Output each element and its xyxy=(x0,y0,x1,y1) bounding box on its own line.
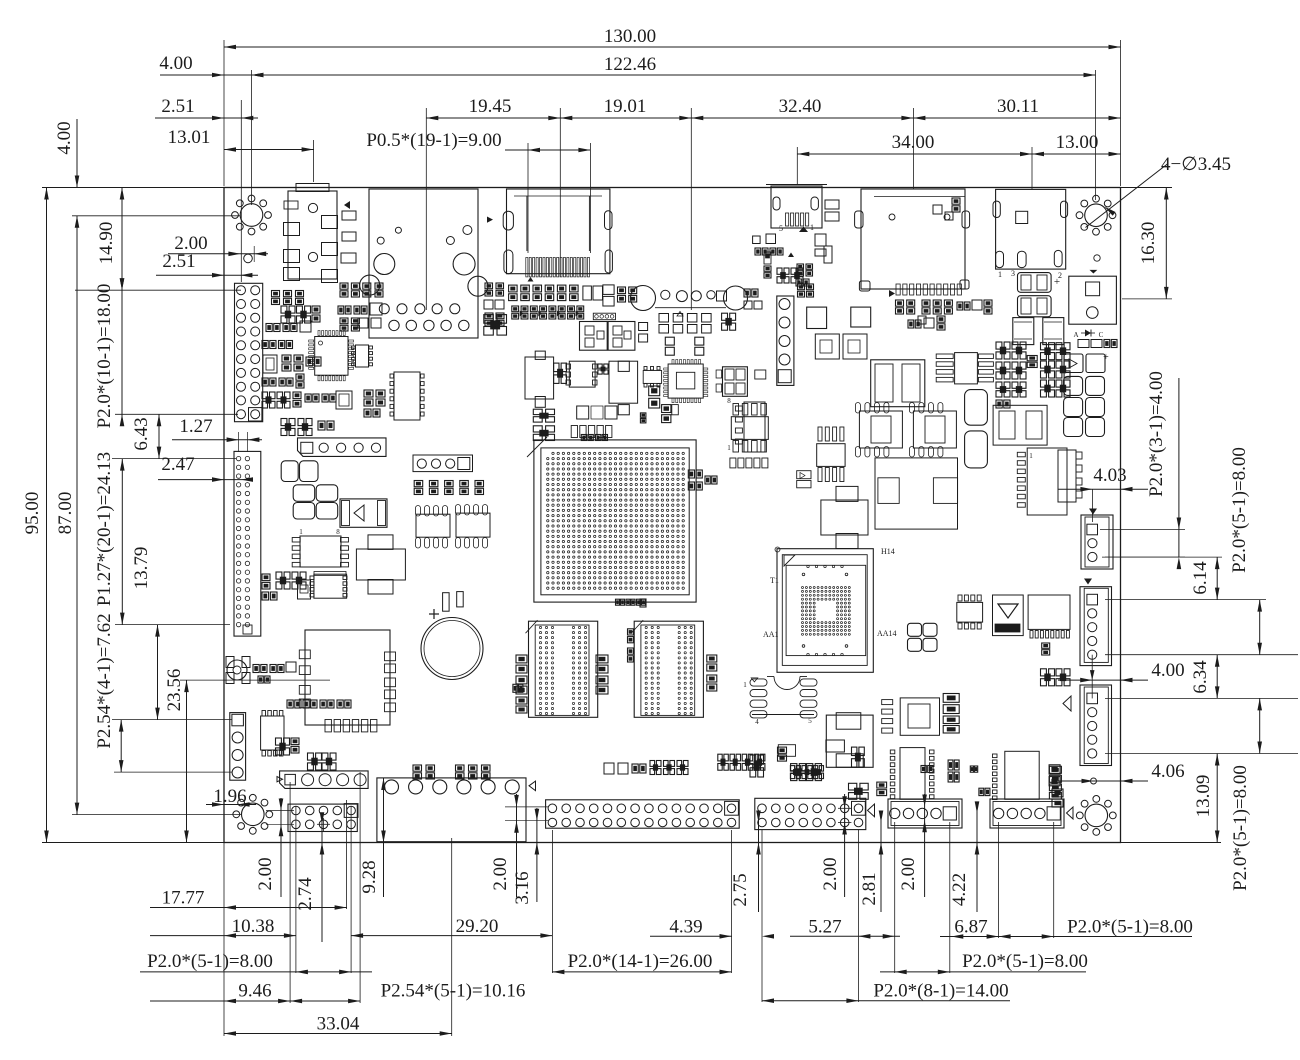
jumper group B2 xyxy=(512,306,584,319)
pin1 marker triangle xyxy=(1090,270,1098,274)
IC U33 SOIC8 footprint xyxy=(743,677,817,727)
IC U22 SOP8 xyxy=(855,403,902,458)
dual USB J2 mount holes xyxy=(360,226,488,297)
capacitor C102 xyxy=(1013,318,1034,345)
SMD pads right of J1 xyxy=(341,201,356,263)
svg-text:1: 1 xyxy=(299,528,303,536)
diode bridge D2 xyxy=(340,499,387,527)
dimension P0.5*(19-1)=9.00 xyxy=(366,130,590,253)
svg-text:1: 1 xyxy=(743,681,747,689)
extension line ext 731.5 xyxy=(731,830,733,973)
extension line ext 1053.7 xyxy=(1053,822,1055,938)
pads right of DDR JP14 xyxy=(707,655,717,691)
board bottom edge extension right xyxy=(1121,842,1222,844)
dimension 2.47 xyxy=(158,454,253,482)
dimension P2.0*(5-1)=8.00 bottom-left xyxy=(140,951,372,974)
svg-text:2.51: 2.51 xyxy=(161,96,194,117)
svg-text:13.00: 13.00 xyxy=(1056,132,1099,153)
cluster E5 xyxy=(282,355,321,371)
dimension 6.43 xyxy=(131,414,161,458)
svg-text:P2.0*(8-1)=14.00: P2.0*(8-1)=14.00 xyxy=(873,981,1008,1002)
extension line header row1 xyxy=(75,289,241,291)
jumper block C3 xyxy=(730,458,768,468)
svg-text:P2.54*(5-1)=10.16: P2.54*(5-1)=10.16 xyxy=(381,981,526,1002)
SSOP U7 xyxy=(352,345,373,367)
header J22 1x4 xyxy=(413,455,473,472)
SD card J5 pins xyxy=(889,284,961,297)
svg-text:4.00: 4.00 xyxy=(54,121,75,154)
svg-text:P2.54*(4-1)=7.62: P2.54*(4-1)=7.62 xyxy=(94,613,115,748)
board top edge extension left xyxy=(42,187,224,189)
svg-text:130.00: 130.00 xyxy=(604,26,656,47)
svg-text:29.20: 29.20 xyxy=(456,916,499,937)
via below J10 xyxy=(1091,778,1097,784)
svg-text:A: A xyxy=(1073,331,1078,339)
diode D1 A-C symbol xyxy=(1073,330,1103,340)
extension lines wafer J pins xyxy=(1100,530,1185,558)
IC U29 SOIC8 xyxy=(727,397,768,452)
regulator U15 xyxy=(525,351,554,407)
svg-text:13.01: 13.01 xyxy=(168,127,211,148)
power connector J6 pin labels xyxy=(998,269,1062,280)
SD card slot J5 outline xyxy=(861,189,965,289)
pin1 marker J9 wafer xyxy=(1084,579,1092,585)
cluster F7 xyxy=(908,316,945,330)
dimension P2.0*(5-1)=8.00 bottom-right2 xyxy=(880,951,1088,974)
micro-USB J4 pins xyxy=(786,213,809,226)
svg-text:1: 1 xyxy=(1029,452,1033,460)
cluster F6 below SD xyxy=(896,300,993,314)
mounting hole H3 bottom-left 3.45mm xyxy=(233,794,273,834)
dual USB J2 pins row1 xyxy=(379,304,460,314)
inductor L2 xyxy=(826,713,873,768)
dimension 6.14 xyxy=(1105,557,1222,600)
cluster E4 xyxy=(262,341,293,349)
crystal Y1 xyxy=(336,391,352,409)
svg-text:P2.0*(5-1)=8.00: P2.0*(5-1)=8.00 xyxy=(1229,447,1250,573)
SSOP U28 xyxy=(817,427,845,482)
extension line 599.6 xyxy=(1105,599,1266,601)
dimension 6.87 xyxy=(940,917,1000,939)
header J12 pins xyxy=(236,456,252,634)
extension line ext 858.4 xyxy=(857,830,859,1002)
pads F9 xyxy=(918,316,926,324)
SSOP U14 xyxy=(261,711,284,757)
svg-text:P0.5*(19-1)=9.00: P0.5*(19-1)=9.00 xyxy=(366,130,501,151)
svg-text:6.14: 6.14 xyxy=(1190,561,1211,595)
cluster G1 xyxy=(618,287,637,302)
dimension P2.0*(5-1)=8.00 bottom-right1 xyxy=(999,917,1193,939)
dual USB J2 pins row2 xyxy=(389,320,469,330)
capacitor C107 pair xyxy=(1064,418,1105,437)
mosfet pair Q2 xyxy=(716,367,747,397)
SOT23 Q3 xyxy=(755,370,766,379)
dimension 13.00 xyxy=(1032,132,1121,156)
dimension 13.01 xyxy=(168,127,314,182)
svg-text:19.01: 19.01 xyxy=(604,96,647,117)
header J17 pins xyxy=(548,801,738,826)
cluster E9 xyxy=(340,283,383,297)
pads below BGA JP13 xyxy=(616,599,647,607)
dimension P1.27*(20-1)=24.13 xyxy=(94,452,125,625)
mounting hole H1 top-left 3.45mm xyxy=(232,195,272,235)
marker right of J2 xyxy=(487,217,493,223)
speaker footprint SP1 xyxy=(1069,276,1117,324)
jumper cluster C8 xyxy=(1041,643,1071,686)
jumper block C9 xyxy=(791,764,822,781)
jumper row JP1 xyxy=(414,481,483,495)
svg-text:1.27: 1.27 xyxy=(179,416,212,437)
dimension 13.79 xyxy=(131,547,160,720)
jumper cluster A3 xyxy=(262,572,306,600)
header J12 2x20 1.27mm outline xyxy=(234,451,261,636)
wifi module U5 xyxy=(299,630,395,732)
svg-text:P2.0*(5-1)=8.00: P2.0*(5-1)=8.00 xyxy=(1230,765,1251,891)
IC U23 SOP8 xyxy=(909,403,956,458)
svg-text:P2.0*(10-1)=18.00: P2.0*(10-1)=18.00 xyxy=(94,284,115,429)
dimension 4.00 top-left xyxy=(159,53,263,77)
SSOP U35 xyxy=(890,748,934,800)
svg-text:3: 3 xyxy=(1011,269,1015,278)
block C10 xyxy=(750,755,764,777)
svg-text:9.28: 9.28 xyxy=(359,860,380,893)
QFN U18 xyxy=(664,360,708,403)
extension line 1.27 header row20 xyxy=(115,624,230,626)
IC U30 SOP8 horizontal xyxy=(936,353,993,384)
micro-USB J4 slots xyxy=(773,197,818,210)
svg-text:P2.0*(3-1)=4.00: P2.0*(3-1)=4.00 xyxy=(1146,371,1167,497)
svg-text:+: + xyxy=(1103,352,1109,363)
dimension P2.0*(8-1)=14.00 xyxy=(762,981,1010,1004)
block B9 xyxy=(554,363,609,383)
regulator U27 xyxy=(821,486,868,548)
cluster E10 xyxy=(338,303,382,315)
svg-text:122.46: 122.46 xyxy=(604,54,656,75)
jumper row JP5 xyxy=(778,747,824,779)
svg-text:2.51: 2.51 xyxy=(162,251,195,272)
SOT23 Q1 xyxy=(298,580,311,599)
dimension 6.34 xyxy=(1190,655,1220,699)
IC U32 SOIC16 xyxy=(1028,595,1070,638)
svg-text:2.00: 2.00 xyxy=(490,857,511,890)
dimension 2.51 left second xyxy=(156,251,258,278)
extension line ext 762 xyxy=(761,830,763,1002)
dimension 30.11 xyxy=(913,96,1120,120)
SSOP U12 xyxy=(390,372,424,420)
dimension P2.0*(10-1)=18.00 xyxy=(94,278,124,428)
jumper cluster C5 xyxy=(1027,356,1037,368)
jumper cluster C11 xyxy=(1049,765,1063,807)
header J18 2x8 2.0mm outline xyxy=(755,798,866,829)
svg-text:4.00: 4.00 xyxy=(1151,660,1184,681)
dual USB connector J2 shell xyxy=(369,189,478,338)
header J11 2x10 2.0mm outline xyxy=(235,283,263,421)
dimension 4.06 xyxy=(1058,761,1185,783)
dimension 130.00 extension lines xyxy=(224,40,1121,186)
svg-text:87.00: 87.00 xyxy=(55,492,76,535)
power connector J6 pads xyxy=(993,201,1068,268)
IC U31 SOP8 xyxy=(957,595,983,629)
pads B8 xyxy=(639,323,648,343)
SSOP U21 xyxy=(735,402,765,452)
triangle F5 xyxy=(788,253,794,258)
pads B14 xyxy=(640,405,678,423)
regulator U9 xyxy=(356,535,405,594)
connector row B4 holes xyxy=(631,286,748,311)
HDMI J3 pin1 triangle xyxy=(528,277,534,282)
jumper cluster A2 xyxy=(281,419,334,436)
block C14 xyxy=(849,783,869,799)
svg-text:4.03: 4.03 xyxy=(1093,465,1126,486)
pads JP8 xyxy=(604,761,688,775)
block B10 xyxy=(649,386,660,408)
extension line ext 290.1 xyxy=(289,782,291,1003)
dimension P2.0*(5-1)=8.00 right lower xyxy=(1230,698,1262,890)
diode module D5 xyxy=(993,595,1024,636)
block JP6 xyxy=(852,747,865,767)
svg-text:32.40: 32.40 xyxy=(779,96,822,117)
dimension 4.22 xyxy=(949,801,979,912)
header J21 1x5 angled xyxy=(298,438,387,457)
header J24 1x5 vertical xyxy=(777,296,794,385)
board bottom edge extension left xyxy=(42,842,224,844)
extension line 698.4 xyxy=(1105,697,1298,699)
mounting hole H2 top-right 3.45mm xyxy=(1076,195,1116,235)
tact switch SW1 xyxy=(226,657,250,684)
svg-text:4: 4 xyxy=(755,718,759,726)
svg-text:C: C xyxy=(1099,331,1104,339)
dimension 4.00 right xyxy=(1058,660,1185,682)
svg-text:4.06: 4.06 xyxy=(1151,761,1184,782)
tantalum capacitor C101 xyxy=(1018,276,1061,317)
dimension 13.09 xyxy=(1193,754,1220,843)
svg-text:P2.0*(5-1)=8.00: P2.0*(5-1)=8.00 xyxy=(962,951,1088,972)
dimension 34.00 xyxy=(797,132,1032,189)
power block D4 xyxy=(815,334,867,359)
IC U20 SOIC8 right edge xyxy=(1058,450,1082,502)
dimension 95.00 xyxy=(22,188,49,843)
jumper cluster A1 xyxy=(364,390,385,417)
dimension 4.00 left vertical xyxy=(54,119,79,228)
pin1 marker J17 xyxy=(529,781,536,791)
pin1 marker J20 xyxy=(1067,807,1074,819)
IC U16 SOIC8 xyxy=(566,361,597,387)
svg-text:1: 1 xyxy=(727,444,731,452)
SD card J5 tabs xyxy=(855,211,970,291)
jumper C1c xyxy=(796,264,813,286)
mounting hole H4 bottom-right 3.45mm xyxy=(1076,796,1116,836)
extension line ext 360.1 xyxy=(359,772,361,1003)
svg-text:6.34: 6.34 xyxy=(1190,660,1211,694)
capacitor C1 pair xyxy=(281,461,318,482)
pads C15 xyxy=(877,782,887,796)
svg-text:2.00: 2.00 xyxy=(820,857,841,890)
audio jack J1 pads xyxy=(284,201,338,283)
svg-text:P1.27*(20-1)=24.13: P1.27*(20-1)=24.13 xyxy=(94,452,115,606)
dimension 19.01 xyxy=(560,96,691,310)
EEPROM U13 xyxy=(310,572,347,599)
audio jack J1 body xyxy=(288,184,337,280)
DDR chip U3 xyxy=(526,620,598,717)
transformer T1a xyxy=(580,322,608,351)
svg-text:10.38: 10.38 xyxy=(232,916,275,937)
dimension 2.51 top xyxy=(155,96,258,282)
jumper row JP4 xyxy=(718,754,765,770)
header J15 pins xyxy=(292,804,358,831)
dimension 23.56 xyxy=(164,669,189,843)
pads C13 xyxy=(948,760,959,782)
pads C2c xyxy=(815,200,839,263)
svg-text:13.79: 13.79 xyxy=(131,547,152,590)
PCB board outline xyxy=(224,188,1121,843)
svg-text:1: 1 xyxy=(810,223,814,232)
pin1 marker J14 xyxy=(277,777,283,782)
header J17 2x14 2.0mm outline xyxy=(546,800,740,828)
svg-text:H14: H14 xyxy=(881,547,895,556)
dimension 14.90 xyxy=(96,188,124,291)
dimension P2.54*(4-1)=7.62 xyxy=(94,613,124,772)
jumper row JP3 xyxy=(413,765,490,779)
wafer connector J7 3-pin xyxy=(1081,515,1113,569)
capacitor C105 pair xyxy=(1064,376,1105,395)
dimension 2.74 xyxy=(295,812,324,942)
regulator U17 xyxy=(609,361,638,415)
svg-text:4.22: 4.22 xyxy=(949,873,970,906)
header J18 pins xyxy=(758,801,866,829)
extension line ext board left bottom xyxy=(223,843,225,1037)
BGA U2 eMMC outline xyxy=(775,547,873,672)
jumper cluster C4 xyxy=(996,342,1026,397)
extension line 772.1 xyxy=(114,771,232,773)
pads F8 xyxy=(933,198,960,220)
header J23 1x4 small xyxy=(593,313,615,320)
via near H1 xyxy=(244,254,253,263)
pads C0 xyxy=(744,289,762,309)
extension line ext 894.7 xyxy=(894,822,896,973)
svg-text:13.09: 13.09 xyxy=(1193,775,1214,818)
jumper row JP10 xyxy=(688,470,717,490)
pin1 marker J10 wafer xyxy=(1063,696,1071,711)
power pad D3 xyxy=(807,307,871,328)
QFN U6 xyxy=(309,331,354,381)
pin1 marker J7 wafer xyxy=(1089,509,1097,515)
tantalum capacitor C100 xyxy=(1018,273,1052,293)
dimension 122.46 extension lines xyxy=(252,70,1096,205)
SMD resistors R row xyxy=(1078,340,1117,348)
PMIC U26 xyxy=(875,458,958,529)
pads JP7 xyxy=(826,740,933,773)
dimension 10.38 xyxy=(150,916,296,938)
extension line ext 351.1 xyxy=(350,806,352,973)
svg-text:+: + xyxy=(1054,276,1060,288)
wafer connector J20 1x5 xyxy=(990,799,1064,828)
dimension P2.54*(5-1)=10.16 xyxy=(290,981,525,1004)
dimension P2.0*(3-1)=4.00 xyxy=(1146,371,1181,569)
wafer connector J9 5-pin xyxy=(1080,587,1112,666)
jumper cluster C6 xyxy=(1041,343,1071,397)
transformer T1b xyxy=(608,322,635,351)
extension line 1.27 header row1 xyxy=(112,458,236,460)
BGA U1 ball grid xyxy=(547,452,685,589)
extension line 814.6 xyxy=(72,814,242,816)
dimension 33.04 xyxy=(224,1014,452,1036)
capacitor C103 xyxy=(1043,318,1064,345)
svg-text:4−∅3.45: 4−∅3.45 xyxy=(1161,154,1231,175)
cluster E1 xyxy=(272,291,304,305)
cluster F4 xyxy=(798,284,814,297)
dimension 3.16 xyxy=(512,808,539,905)
extension line ext 295.9 xyxy=(295,806,297,973)
via below H2 xyxy=(1094,255,1100,261)
wafer connector J19 1x5 xyxy=(888,799,962,828)
svg-text:33.04: 33.04 xyxy=(317,1014,360,1035)
micro-USB connector J4 shell xyxy=(766,185,827,229)
battery connector J16 pins xyxy=(385,780,520,794)
header J14 pins xyxy=(285,774,366,786)
SSOP U25 xyxy=(1017,448,1067,515)
extension line 298.9 xyxy=(1122,298,1172,300)
svg-text:95.00: 95.00 xyxy=(22,492,43,535)
dimension 32.40 xyxy=(691,96,913,189)
dimension 9.28 xyxy=(359,778,386,897)
cluster E13 xyxy=(485,283,504,296)
svg-text:14.90: 14.90 xyxy=(96,222,117,265)
block B7 xyxy=(722,313,736,330)
battery connector J16 outline xyxy=(377,778,526,842)
cluster E6 xyxy=(262,374,304,388)
header J15 2x5 2.0mm outline xyxy=(288,804,357,831)
HDMI J3 pin comb xyxy=(526,258,590,277)
dimension 9.46 xyxy=(150,981,300,1004)
cluster E11 xyxy=(340,318,359,331)
hole center extension line left xyxy=(72,215,240,217)
cluster F1 xyxy=(753,234,783,255)
jumper col JP11 xyxy=(513,655,527,713)
label 4-dia3.45 with leader xyxy=(1086,154,1232,228)
svg-text:T1: T1 xyxy=(770,576,779,585)
dimension 2.00 bottom-left rows xyxy=(255,798,294,897)
dimension 1.27 header cols xyxy=(172,416,262,452)
board top edge extension right xyxy=(1121,187,1173,189)
pad block B5 xyxy=(659,314,711,334)
SSOP U36 xyxy=(993,751,1040,799)
HDMI connector J3 shell xyxy=(507,189,610,274)
pads E12 xyxy=(358,318,381,328)
jumper column left of H4 xyxy=(1049,766,1061,799)
dimension 2.00 J8 rows xyxy=(820,794,847,897)
svg-text:AA14: AA14 xyxy=(877,629,897,638)
capacitor C2 quad xyxy=(293,485,338,519)
extension line 753.5 xyxy=(1105,753,1298,755)
cluster F3 xyxy=(777,268,803,283)
extension line 654.7 xyxy=(1105,654,1298,656)
dimension 4.39 xyxy=(650,917,774,939)
capacitor C106 pair xyxy=(1064,398,1105,417)
dimension 2.75 xyxy=(730,811,761,913)
svg-text:2.47: 2.47 xyxy=(161,454,194,475)
svg-text:3.16: 3.16 xyxy=(512,871,533,904)
dimension 5.27 xyxy=(790,917,900,939)
audio jack J1 holes xyxy=(308,203,317,261)
svg-text:2.75: 2.75 xyxy=(730,873,751,906)
dimension 2.81 xyxy=(859,811,883,913)
BGA U2 labels xyxy=(763,547,897,639)
wafer gap line xyxy=(1090,655,1095,699)
svg-text:8: 8 xyxy=(727,397,731,405)
header J13 1x4 2.54mm xyxy=(230,713,246,781)
dimension P2.0*(5-1)=8.00 right upper xyxy=(1229,447,1262,655)
dimension 1.96 xyxy=(206,786,256,807)
